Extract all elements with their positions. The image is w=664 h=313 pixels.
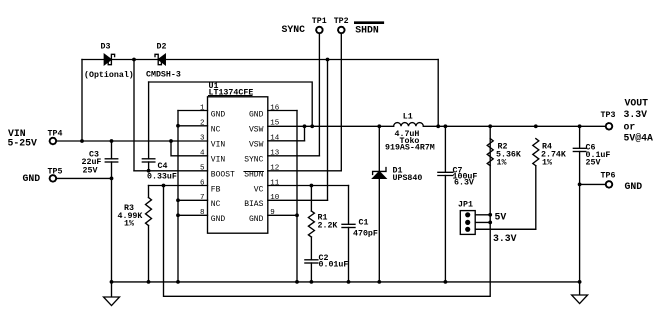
svg-text:1%: 1% bbox=[542, 159, 552, 168]
pin 9 stub to right gnd bus bbox=[268, 214, 297, 216]
svg-text:1%: 1% bbox=[124, 220, 134, 229]
pin 14 stub bbox=[268, 140, 305, 142]
svg-text:4: 4 bbox=[200, 150, 205, 158]
capacitor C4 0.33uF bbox=[148, 82, 150, 159]
capacitor C7 100uF 6.3V bbox=[444, 126, 446, 172]
wire JP1 pin1 to R2 bottom bbox=[475, 214, 490, 216]
ground symbol left bbox=[111, 282, 113, 297]
wire left ground bus pins 1,2,7,8 bbox=[177, 111, 179, 282]
svg-text:GND: GND bbox=[249, 215, 264, 224]
svg-text:TP5: TP5 bbox=[48, 168, 63, 177]
svg-text:919AS-4R7M: 919AS-4R7M bbox=[385, 143, 435, 152]
svg-text:D2: D2 bbox=[157, 43, 167, 52]
ground symbol right bbox=[579, 282, 581, 295]
svg-text:470pF: 470pF bbox=[353, 230, 378, 239]
svg-text:1%: 1% bbox=[497, 159, 507, 168]
svg-text:25V: 25V bbox=[83, 167, 98, 176]
wire TP2 to SHDN pin 12 bbox=[340, 34, 342, 171]
svg-text:3: 3 bbox=[200, 135, 205, 143]
wire C4 top to VSW bbox=[149, 82, 313, 126]
svg-text:SYNC: SYNC bbox=[244, 156, 263, 165]
svg-text:VIN: VIN bbox=[211, 141, 226, 150]
svg-text:C4: C4 bbox=[158, 162, 168, 171]
pin 15 VSW line to L1 bbox=[268, 125, 394, 127]
wire BIAS feed drop to pin 10 bbox=[327, 60, 329, 201]
test point TP4 bbox=[50, 138, 56, 144]
svg-text:VC: VC bbox=[254, 185, 264, 194]
svg-text:or: or bbox=[624, 121, 636, 132]
wire TP5 to C3 bottom bbox=[57, 177, 112, 179]
wire D2/D3 junction down to BOOST line bbox=[133, 60, 135, 171]
wire VIN line TP4 to pin 3 bbox=[57, 140, 208, 142]
wire right ground bus bbox=[296, 111, 298, 282]
pin 10 BIAS stub bbox=[268, 199, 328, 201]
wire main ground rail bbox=[112, 281, 580, 283]
svg-text:5-25V: 5-25V bbox=[8, 138, 38, 149]
svg-text:VOUT: VOUT bbox=[625, 98, 649, 109]
test point TP6 bbox=[606, 181, 612, 187]
wire TP1 to SYNC pin 13 bbox=[318, 34, 320, 156]
wire R4 bottom to JP1 pin 3 bbox=[475, 166, 536, 230]
node D3 cathode / D2 cathode junction bbox=[132, 58, 136, 62]
svg-text:TP2: TP2 bbox=[334, 17, 349, 26]
svg-text:TP4: TP4 bbox=[48, 130, 63, 139]
node VIN riser junction bbox=[80, 139, 84, 143]
capacitor C6 0.1uF 25V bbox=[579, 126, 581, 148]
node C3 junction bbox=[110, 139, 114, 143]
node BIAS feed junction bbox=[326, 58, 330, 62]
wire TP6 to C6 line bbox=[578, 183, 582, 187]
svg-text:6.3V: 6.3V bbox=[454, 179, 474, 188]
pin 13 SYNC stub to TP1 bbox=[268, 155, 320, 157]
svg-text:8: 8 bbox=[200, 209, 205, 217]
capacitor C1 470pF bbox=[348, 186, 350, 225]
wire pin14 to VSW line bbox=[304, 126, 306, 141]
svg-text:JP1: JP1 bbox=[458, 201, 473, 210]
jumper JP1 bbox=[460, 211, 475, 235]
svg-text:0.01uF: 0.01uF bbox=[319, 261, 349, 270]
node pin4 branch junction bbox=[169, 139, 173, 143]
svg-text:TP3: TP3 bbox=[601, 111, 616, 120]
svg-text:2: 2 bbox=[200, 120, 205, 128]
svg-text:TP6: TP6 bbox=[601, 172, 616, 181]
svg-text:5: 5 bbox=[200, 165, 205, 173]
svg-text:5V@4A: 5V@4A bbox=[624, 132, 654, 143]
capacitor C3 22uF 25V bbox=[111, 141, 113, 159]
svg-text:1: 1 bbox=[200, 104, 205, 112]
pin 7 stub bbox=[178, 199, 208, 201]
pin 12 SHDN stub to TP2 bbox=[268, 170, 342, 172]
svg-text:VSW: VSW bbox=[249, 126, 264, 135]
wire riser VIN to D3 anode bbox=[81, 60, 83, 142]
pin 2 stub bbox=[178, 125, 208, 127]
test point TP5 bbox=[50, 175, 56, 181]
node FB net drop junction bbox=[162, 184, 166, 188]
svg-text:GND: GND bbox=[211, 110, 226, 119]
test point TP2 bbox=[338, 27, 344, 33]
svg-text:L1: L1 bbox=[403, 113, 413, 122]
capacitor C2 0.01uF bbox=[310, 237, 312, 260]
svg-text:7: 7 bbox=[200, 194, 205, 202]
svg-text:VSW: VSW bbox=[249, 141, 264, 150]
diode D2 CMDSH-3 bbox=[158, 54, 165, 64]
resistor R3 4.99K bbox=[148, 186, 150, 198]
svg-text:GND: GND bbox=[249, 110, 264, 119]
svg-text:UPS840: UPS840 bbox=[393, 174, 423, 183]
resistor R4 2.74K bbox=[533, 139, 539, 166]
pin 11 VC line bbox=[268, 185, 349, 187]
wire JP1 pin2 to FB net bbox=[475, 221, 490, 223]
svg-text:TP1: TP1 bbox=[312, 17, 327, 26]
svg-text:BIAS: BIAS bbox=[244, 200, 263, 209]
pin 1 stub bbox=[178, 110, 208, 112]
pin 16 stub to right gnd bus bbox=[268, 110, 297, 112]
svg-text:D3: D3 bbox=[101, 43, 111, 52]
wire JP1 pin3 to R4 bbox=[475, 228, 536, 230]
svg-text:6: 6 bbox=[200, 179, 205, 187]
wire boost/output feed top rail bbox=[82, 59, 438, 61]
test point TP1 bbox=[316, 27, 322, 33]
wire VOUT line L1 to TP3 bbox=[423, 125, 605, 127]
svg-text:BOOST: BOOST bbox=[211, 171, 235, 180]
svg-text:CMDSH-3: CMDSH-3 bbox=[146, 71, 181, 80]
svg-text:GND: GND bbox=[23, 173, 41, 184]
inductor L1 4.7uH Toko 919AS-4R7M bbox=[394, 123, 424, 127]
svg-text:GND: GND bbox=[211, 215, 226, 224]
wire output feed drop to VOUT line bbox=[437, 60, 439, 127]
svg-text:5V: 5V bbox=[495, 212, 507, 223]
svg-text:SYNC: SYNC bbox=[282, 24, 306, 35]
svg-text:NC: NC bbox=[211, 126, 221, 135]
diode D3 (optional) bbox=[104, 54, 111, 64]
wire pin 4 branch bbox=[171, 141, 208, 156]
wire FB net drop and bottom run to JP1 bbox=[164, 126, 491, 296]
svg-text:NC: NC bbox=[211, 200, 221, 209]
svg-text:C1: C1 bbox=[359, 219, 369, 228]
resistor R1 2.2K bbox=[310, 184, 314, 188]
svg-text:(Optional): (Optional) bbox=[84, 70, 134, 80]
svg-text:25V: 25V bbox=[586, 159, 601, 168]
svg-text:GND: GND bbox=[625, 181, 643, 192]
wire BOOST line to pin 5 bbox=[134, 170, 208, 172]
svg-text:FB: FB bbox=[211, 185, 221, 194]
svg-text:3.3V: 3.3V bbox=[493, 233, 517, 244]
pin 8 stub bbox=[178, 214, 208, 216]
svg-text:0.33uF: 0.33uF bbox=[147, 173, 177, 182]
wire FB line R3 to pin 6 bbox=[149, 185, 208, 187]
svg-text:2.2K: 2.2K bbox=[318, 222, 338, 231]
op-amp U1 LT1374CFE box bbox=[208, 97, 268, 233]
svg-text:3.3V: 3.3V bbox=[624, 109, 648, 120]
resistor R2 5.36K bbox=[487, 139, 493, 166]
test point TP3 bbox=[606, 123, 612, 129]
node rail left end bbox=[110, 280, 114, 284]
diode D1 UPS840 bbox=[378, 126, 380, 282]
svg-text:VIN: VIN bbox=[211, 156, 226, 165]
svg-text:SHDN: SHDN bbox=[355, 25, 379, 36]
